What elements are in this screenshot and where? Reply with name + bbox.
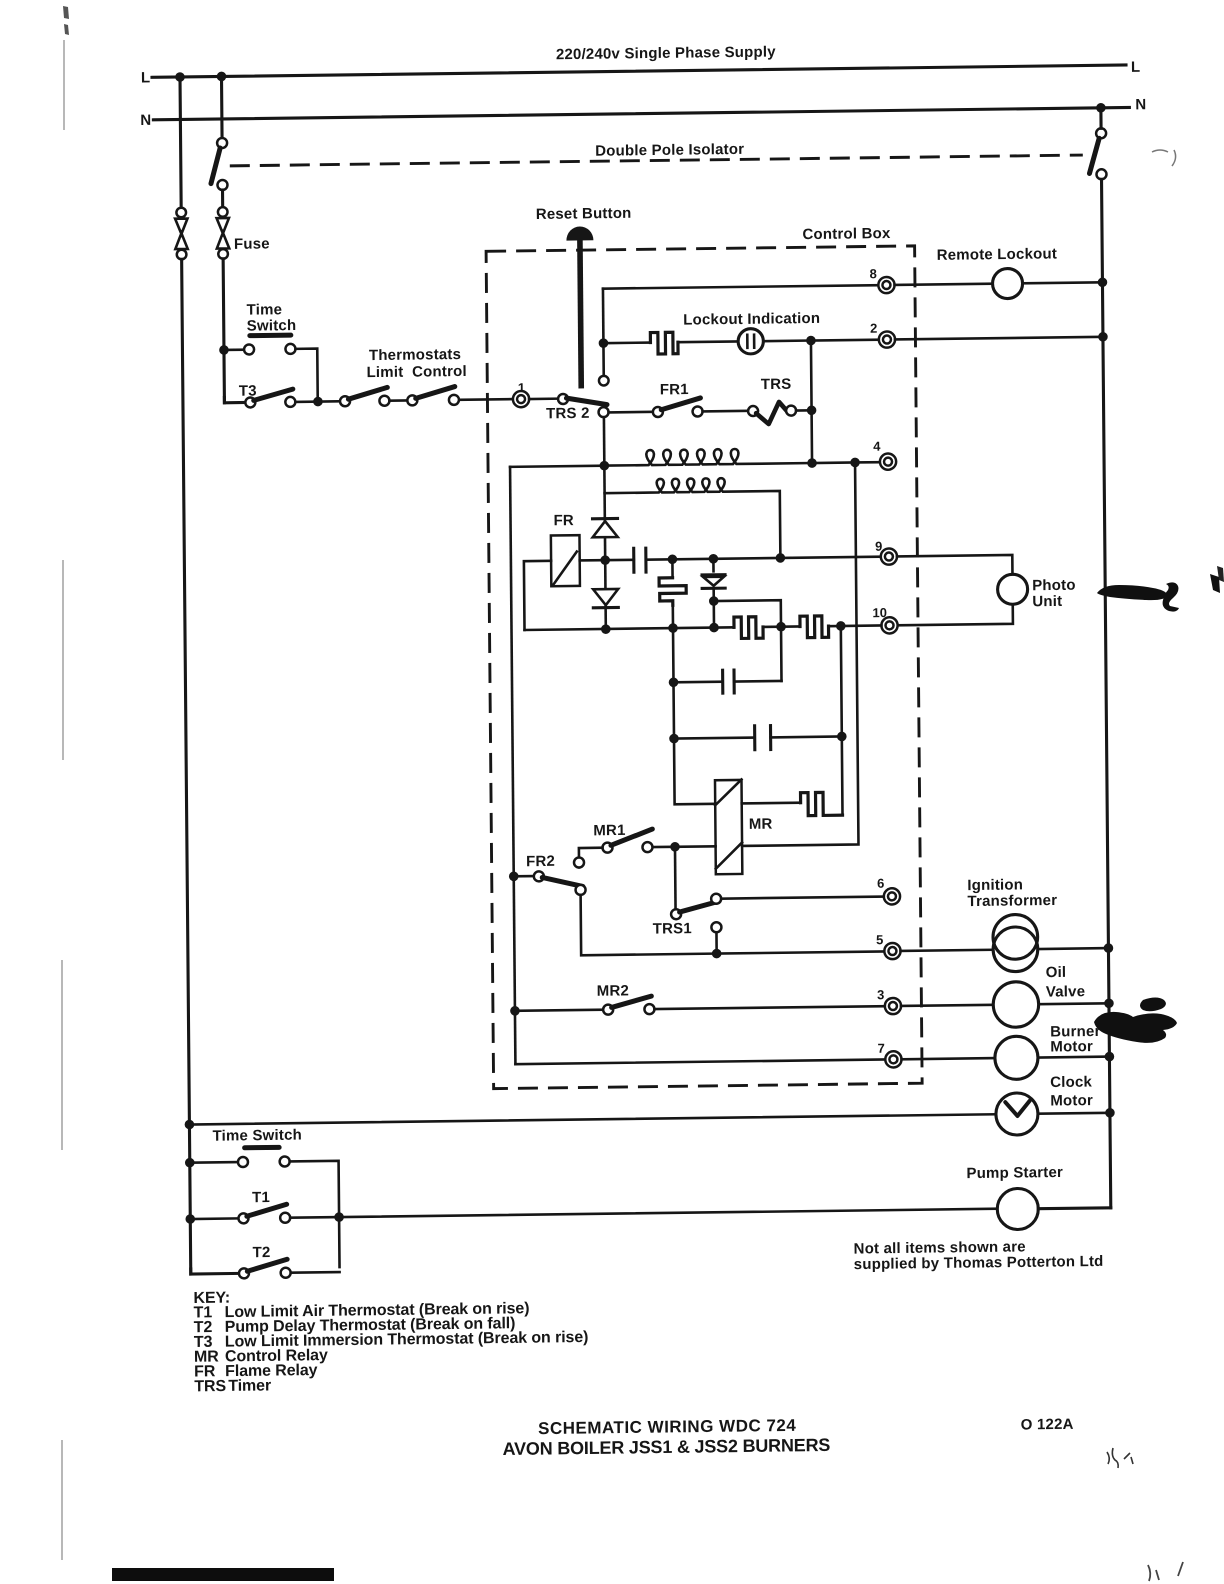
wire row8 left corner vertical: [602, 289, 605, 344]
terminal 6: [884, 888, 900, 904]
double pole isolator left blade: [211, 148, 221, 184]
junction rowA at V3: [807, 458, 817, 468]
meander element row10 left: [734, 617, 763, 639]
svg-text:8: 8: [870, 266, 877, 281]
wire left rail to time switch lower: [190, 1161, 238, 1164]
wire C4 row right: [734, 680, 781, 683]
svg-text:N: N: [1135, 96, 1146, 113]
terminal 4: [880, 453, 896, 469]
wire MR1 pivot stub to FR2 upper throw: [579, 848, 603, 868]
svg-text:T2: T2: [253, 1244, 271, 1261]
control box dashed outline: [486, 246, 922, 1089]
wire rowA V3 to V1: [812, 461, 855, 464]
wire TRS2 upper throw vertical: [602, 343, 605, 376]
thermostat T1 blade: [247, 1204, 287, 1216]
svg-text:AVON BOILER JSS1 & JSS2 BURNE: AVON BOILER JSS1 & JSS2 BURNERS: [503, 1435, 831, 1459]
wire between limit thermostats: [389, 399, 407, 402]
wire row6 to terminal 6: [721, 897, 884, 899]
wire T2 row left corner: [191, 1268, 239, 1274]
wire lockout lamp to V3: [763, 339, 811, 342]
wire MR row left of box: [652, 845, 715, 848]
reset button stem: [580, 240, 581, 388]
wire row10 meander to terminal 10: [829, 624, 882, 627]
wire row9 left loop: [524, 561, 552, 630]
wire T1 row left: [190, 1217, 238, 1220]
MR2 fixed contact: [644, 1004, 654, 1014]
wire terminal 8 to remote lockout lamp: [895, 284, 993, 285]
junction on N line at right rail: [1096, 103, 1106, 113]
thermostat T1 fixed contact: [280, 1213, 290, 1223]
time switch upper contact b: [285, 344, 295, 354]
wire row7 from inner-left vertical: [515, 1059, 885, 1064]
junction time switch tap on isolator rail: [219, 345, 229, 355]
wire row2 to terminal 2: [811, 338, 879, 341]
svg-text:Time: Time: [247, 301, 283, 318]
terminal 1: [513, 391, 529, 407]
wire terminal 3 to oil valve: [901, 1005, 993, 1006]
wire inner-left vertical: [510, 467, 515, 1064]
svg-text:Thermostats: Thermostats: [369, 346, 461, 364]
svg-text:220/240v Single Phase Supply: 220/240v Single Phase Supply: [556, 43, 776, 63]
wire thermostat row into control box: [459, 398, 513, 401]
TRS1 blade: [679, 901, 719, 912]
relay MR hatch 1: [715, 779, 742, 805]
junction row8 right rail: [1098, 277, 1108, 287]
limit thermostat 2 fixed contact: [449, 395, 459, 405]
junction row9 at D3: [709, 554, 719, 564]
relay FR box: [551, 535, 580, 586]
wire TRS1 lower contact to row5: [715, 932, 718, 953]
lamp Remote Lockout: [992, 268, 1022, 298]
junction C5 row left: [669, 734, 679, 744]
junction row5 right rail: [1104, 943, 1114, 953]
junction MR row at TRS1 vertical: [670, 842, 680, 852]
TRS2 upper throw contact: [599, 376, 609, 386]
double pole isolator left top contact: [217, 138, 227, 148]
svg-text:Reset Button: Reset Button: [536, 205, 632, 223]
junction C5 row right at V2: [837, 732, 847, 742]
wire remote lockout lamp to right rail: [1023, 282, 1103, 283]
wire relay FR to C1: [580, 558, 634, 561]
junction T3 row with time switch branch: [313, 397, 323, 407]
wire V5 row10 to C4 corner: [780, 627, 783, 681]
TRS2 blade: [566, 398, 607, 406]
svg-text:7: 7: [878, 1041, 885, 1056]
thermostat T3 fixed contact: [285, 397, 295, 407]
meander element MR right: [801, 792, 843, 816]
diode D3 triangle: [703, 577, 724, 586]
wire V2 row10 to MR meander: [841, 626, 843, 815]
junction TRS row at V3: [807, 405, 817, 415]
svg-text:TRS 2: TRS 2: [546, 405, 590, 423]
fuse F2 bottom circle: [218, 249, 228, 259]
wire row8 to terminal 8: [603, 285, 878, 288]
terminal 7: [885, 1051, 901, 1067]
diode D2 bar: [593, 606, 618, 609]
fuse F1 left body: [175, 219, 188, 250]
svg-text:TRS: TRS: [194, 1378, 226, 1395]
junction C4 row left: [669, 677, 679, 687]
junction time switch lower on left rail: [185, 1158, 195, 1168]
svg-text:Ignition: Ignition: [967, 876, 1023, 894]
fuse F2 body: [217, 218, 230, 249]
diode D1 bar: [593, 517, 618, 520]
diode D1 triangle: [593, 521, 618, 537]
wire burner motor to right rail: [1038, 1055, 1110, 1059]
wire C1 to row9 junctions: [646, 557, 889, 560]
ink speck right edge: [1217, 566, 1224, 582]
burner motor: [995, 1036, 1038, 1080]
wire meander to lockout lamp: [678, 340, 738, 343]
diode D2 triangle: [593, 589, 618, 605]
clock motor hands: [1005, 1101, 1029, 1116]
svg-text:Switch: Switch: [247, 317, 297, 335]
wire left rail long segment: [182, 259, 191, 1274]
wire right rail isolator down to pump corner: [1102, 179, 1111, 1208]
wire terminal 9 to photo unit corner: [897, 555, 1012, 576]
junction row2 at reset vertical: [599, 338, 609, 348]
svg-text:4: 4: [873, 439, 881, 454]
wire V1 rowA down to MR row: [739, 462, 859, 845]
wire photo unit to row10 corner: [897, 604, 1012, 625]
wire terminal 7 to burner motor: [902, 1058, 995, 1059]
scribble near drawing number: [1107, 1448, 1133, 1468]
TRS1 lower contact: [711, 922, 721, 932]
MR2 pivot contact: [603, 1005, 613, 1015]
junction clock row on left rail: [185, 1120, 195, 1130]
relay MR hatch 2: [716, 842, 743, 868]
wire pump starter to right rail corner: [1038, 1206, 1111, 1210]
junction rowA at V1: [850, 458, 860, 468]
limit thermostat 2 blade: [416, 387, 455, 399]
capacitor C1: [634, 547, 646, 574]
wire D3 to branch junction: [712, 588, 715, 627]
wire FR2 row: [514, 875, 534, 878]
junction row7 right rail: [1105, 1052, 1115, 1062]
junction rowA at mid vertical: [600, 461, 610, 471]
wire L supply line: [152, 65, 1126, 77]
wire D3 vertical from row9: [712, 559, 715, 572]
junction row5 at TRS1: [712, 949, 722, 959]
svg-text:supplied by Thomas Potterton L: supplied by Thomas Potterton Ltd: [854, 1253, 1104, 1273]
photo unit cell: [997, 574, 1027, 604]
svg-text:6: 6: [877, 876, 884, 891]
wire V3 vertical row2 to rowA: [811, 341, 812, 464]
ignition transformer lower winding: [993, 927, 1038, 972]
junction row2 right rail: [1098, 332, 1108, 342]
junction T1 row ladder: [334, 1212, 344, 1222]
junction row2 at V3: [806, 336, 816, 346]
meander element V4 vertical: [659, 578, 686, 606]
lamp Lockout Indication: [738, 329, 763, 355]
diode D3 bottom bar: [702, 587, 725, 590]
svg-text:10: 10: [872, 605, 887, 620]
double pole isolator right blade: [1089, 138, 1099, 173]
svg-text:Clock: Clock: [1050, 1074, 1092, 1092]
svg-text:N: N: [140, 112, 151, 129]
svg-text:SCHEMATIC WIRING WDC 724: SCHEMATIC WIRING WDC 724: [538, 1416, 796, 1438]
FR1 blade: [661, 398, 700, 410]
svg-text:Photo: Photo: [1032, 577, 1076, 595]
junction clock row right rail: [1105, 1108, 1115, 1118]
thermostat T2 blade: [247, 1259, 287, 1271]
oil valve solenoid: [993, 982, 1039, 1028]
junction on L line at left rail: [175, 72, 185, 82]
limit thermostat 1 fixed contact: [379, 396, 389, 406]
fuse F1 left top circle: [176, 208, 186, 218]
clock motor: [996, 1093, 1038, 1136]
meander element row10 right: [800, 616, 829, 638]
junction FR2 row on inner-left vertical: [509, 871, 519, 881]
wire TRS1 common vertical: [674, 847, 677, 910]
faint curl near right isolator: [1152, 150, 1176, 166]
wire V4 element to row10: [672, 605, 675, 628]
svg-text:L: L: [141, 69, 151, 86]
FR2 pivot contact: [534, 871, 544, 881]
junction row9 at V4: [668, 554, 678, 564]
wire row10 main run: [525, 627, 735, 630]
photocopy marks bottom right: [1148, 1562, 1183, 1581]
junction row10 at V2: [836, 621, 846, 631]
wire row10 between meanders: [763, 625, 800, 628]
fuse F1 left bottom circle: [177, 250, 187, 260]
junction T1 row on left rail: [185, 1214, 195, 1224]
junction row9 at coil2 corner vertical: [776, 553, 786, 563]
photocopy mark top left: [63, 6, 69, 35]
svg-text:Motor: Motor: [1050, 1092, 1093, 1110]
capacitor C5: [755, 724, 771, 751]
junction on L line at isolator rail: [217, 72, 227, 82]
wire tap to time switch: [224, 348, 244, 351]
svg-text:T1: T1: [252, 1189, 270, 1206]
wire time switch to T3 row corner: [295, 349, 317, 398]
relay FR diagonal: [553, 552, 577, 585]
coil TRS relay winding rowA: [608, 448, 812, 466]
wire C4 row left: [674, 680, 723, 683]
photocopy streak left edge: [62, 40, 64, 1560]
thermostat T2 pivot contact: [239, 1268, 249, 1278]
svg-text:TRS1: TRS1: [653, 920, 692, 937]
svg-text:Remote Lockout: Remote Lockout: [937, 245, 1057, 264]
svg-text:FR: FR: [553, 512, 574, 529]
wire isolator rail to fuse: [221, 190, 224, 207]
junction row3 right rail: [1104, 998, 1114, 1008]
wire V4 down to MR coil corner: [674, 738, 715, 804]
MR1 pivot contact: [602, 843, 612, 853]
wire N supply line: [153, 107, 1129, 119]
wire FR1 to TRS: [703, 410, 749, 413]
time switch upper closed-contact bar: [250, 333, 291, 339]
thermostat T3 pivot contact: [245, 397, 255, 407]
wire row3 to MR2: [515, 1010, 603, 1011]
wire rowA left segment to inner-left vertical: [510, 466, 604, 467]
wire V4 down to C5 row: [672, 682, 675, 738]
svg-text:Unit: Unit: [1032, 593, 1062, 610]
limit thermostat 1 blade: [348, 387, 387, 399]
svg-text:MR2: MR2: [597, 982, 629, 999]
wire time switch lower to right ladder: [290, 1161, 340, 1268]
svg-text:Time Switch: Time Switch: [212, 1127, 302, 1145]
wire double pole isolator dashed link: [230, 155, 1083, 166]
svg-text:FR1: FR1: [660, 381, 689, 398]
wire FR2 lower throw down to row5: [581, 893, 712, 955]
FR2 blade: [542, 877, 583, 887]
ignition transformer upper winding: [993, 914, 1038, 959]
wire left rail upper segment: [180, 77, 181, 208]
svg-text:Motor: Motor: [1050, 1038, 1093, 1056]
wire MR2 to terminal 3: [654, 1006, 884, 1009]
svg-text:Transformer: Transformer: [967, 892, 1057, 910]
svg-text:TRS: TRS: [761, 376, 792, 393]
junction row10 at V4: [668, 623, 678, 633]
svg-text:L: L: [1131, 59, 1141, 76]
thermostat T2 fixed contact: [281, 1268, 291, 1278]
reset button dome: [566, 226, 593, 240]
TRS2 pivot contact: [558, 394, 568, 404]
svg-text:Timer: Timer: [228, 1377, 271, 1395]
wire TRS to V3: [796, 409, 812, 412]
time switch upper contact a: [244, 344, 254, 354]
TRS1 upper contact: [711, 894, 721, 904]
relay MR box: [715, 780, 742, 874]
junction row10 at D3 vertical: [709, 623, 719, 633]
terminal 3: [885, 998, 901, 1014]
wire right rail N to isolator: [1099, 108, 1102, 129]
time switch lower contact a: [238, 1157, 248, 1167]
junction row9 at mid vertical: [600, 555, 610, 565]
TRS1 pivot contact: [671, 909, 681, 919]
wire isolator rail to time switch tap: [223, 259, 224, 403]
wire C5 row left: [674, 738, 755, 739]
MR1 blade: [611, 829, 653, 845]
junction row10 at mid vertical: [601, 624, 611, 634]
TRS zigzag blade: [756, 402, 788, 424]
wire isolator rail corner into T3: [224, 397, 245, 403]
pump starter: [997, 1188, 1038, 1230]
FR1 fixed contact: [693, 406, 703, 416]
meander element row2: [650, 332, 678, 354]
FR2 upper throw contact: [574, 857, 584, 867]
ink smudge near oil valve and burner motor: [1094, 998, 1177, 1043]
wire row5 to terminal 5: [717, 951, 885, 953]
svg-text:3: 3: [877, 987, 884, 1002]
wire clock motor row: [189, 1114, 996, 1124]
wire oil valve to right rail: [1039, 1002, 1109, 1005]
double pole isolator right top contact: [1096, 128, 1106, 138]
MR2 blade: [612, 996, 652, 1007]
svg-text:MR1: MR1: [593, 822, 625, 839]
svg-text:Limit Control: Limit Control: [366, 363, 466, 381]
svg-text:Oil: Oil: [1046, 964, 1067, 981]
svg-text:Pump Starter: Pump Starter: [966, 1164, 1063, 1182]
limit thermostat 2 pivot contact: [407, 395, 417, 405]
svg-text:FR2: FR2: [526, 853, 555, 870]
TRS2 lower throw contact: [599, 407, 609, 417]
svg-text:Control Box: Control Box: [802, 225, 891, 243]
ink smudge near photo unit: [1097, 574, 1220, 612]
coil MR winding row: [604, 477, 780, 555]
photocopy bar bottom left: [112, 1568, 334, 1581]
terminal 2: [879, 331, 895, 347]
terminal 10: [881, 617, 897, 633]
svg-text:O 122A: O 122A: [1021, 1416, 1074, 1434]
thermostat T1 pivot contact: [238, 1213, 248, 1223]
MR1 fixed contact: [642, 842, 652, 852]
diode D3 top bar: [702, 573, 725, 576]
wire ignition transformer to right rail: [1038, 947, 1109, 950]
fuse F2 top circle: [218, 207, 228, 217]
terminal 8: [878, 277, 894, 293]
terminal 9: [881, 548, 897, 564]
double pole isolator left bottom contact: [217, 180, 227, 190]
wire D3 branch to V5: [714, 600, 781, 627]
wire terminal 2 to right rail: [895, 337, 1103, 340]
svg-text:5: 5: [876, 932, 883, 947]
svg-text:Fuse: Fuse: [234, 235, 270, 252]
double pole isolator right bottom contact: [1096, 169, 1106, 179]
wire terminal 1 to TRS2: [529, 397, 558, 400]
wire TRS2 to FR1: [609, 411, 653, 414]
svg-text:2: 2: [870, 321, 877, 336]
limit thermostat 1 pivot contact: [340, 396, 350, 406]
wire terminal 5 to ignition transformer: [901, 950, 994, 951]
terminal 5: [884, 943, 900, 959]
junction row3 on inner-left vertical: [510, 1006, 520, 1016]
wire T2 to ladder corner: [291, 1271, 340, 1274]
wire MR coil top right to meander: [742, 801, 801, 804]
capacitor C4: [723, 669, 735, 695]
wire T3 to time switch junction: [295, 400, 345, 403]
wire isolator rail top stub: [220, 76, 224, 138]
FR1 pivot contact: [653, 407, 663, 417]
svg-text:Double Pole Isolator: Double Pole Isolator: [595, 141, 744, 160]
wire V4 row9 to element: [671, 559, 674, 578]
junction row10 at V5: [776, 622, 786, 632]
wire row2 to meander: [603, 341, 650, 344]
junction D3 branch: [709, 596, 719, 606]
svg-text:Lockout Indication: Lockout Indication: [683, 310, 820, 329]
thermostat T3 blade: [254, 389, 293, 400]
wire clock motor to right rail: [1038, 1112, 1110, 1116]
TRS fixed contact: [786, 406, 796, 416]
wire C5 row right: [771, 735, 842, 739]
wire TRS2 lower contact down to rowA: [604, 417, 606, 629]
time switch lower contact b: [280, 1156, 290, 1166]
wire rowA to terminal 4: [855, 461, 880, 464]
svg-text:MR: MR: [749, 816, 773, 833]
time switch lower closed-contact bar: [245, 1145, 280, 1150]
FR2 lower throw contact: [576, 885, 586, 895]
wire T1 to pump starter: [290, 1209, 997, 1218]
TRS pivot contact: [748, 406, 758, 416]
wire V4 row10 down to C4 row: [672, 628, 675, 682]
svg-text:Valve: Valve: [1046, 983, 1086, 1000]
